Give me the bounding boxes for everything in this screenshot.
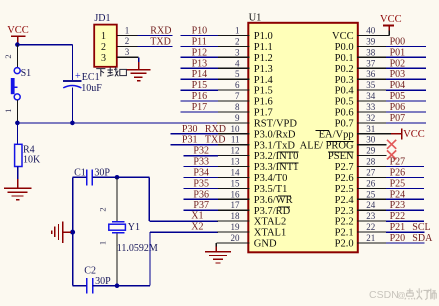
svg-text:P2.6: P2.6 bbox=[335, 173, 354, 184]
U1 pin 21 (P2.0) bbox=[335, 233, 387, 250]
overline RD (pin 17 name) bbox=[278, 206, 290, 208]
connector JD1 pin 1 bbox=[117, 25, 138, 35]
capacitor C1 designator bbox=[74, 167, 86, 178]
wire P06 net bbox=[386, 111, 426, 113]
svg-text:1: 1 bbox=[101, 31, 106, 42]
svg-text:30: 30 bbox=[366, 135, 376, 145]
svg-text:VCC: VCC bbox=[7, 25, 29, 36]
svg-text:26: 26 bbox=[366, 178, 376, 188]
wire branch down to EC1 bbox=[71, 45, 73, 81]
wire P10 net bbox=[181, 35, 218, 37]
wire X1 net to U1 pin 18 bbox=[149, 220, 218, 222]
U1 pin 28 (P2.7) bbox=[335, 157, 387, 174]
power ground at crystal rail bbox=[52, 221, 71, 243]
net label P07 bbox=[390, 113, 406, 124]
svg-text:X2: X2 bbox=[191, 222, 203, 233]
net label P23 bbox=[390, 200, 406, 211]
svg-text:23: 23 bbox=[366, 211, 376, 221]
svg-text:11: 11 bbox=[231, 135, 240, 145]
net label P10 bbox=[192, 26, 208, 37]
wire P26 net bbox=[386, 177, 424, 179]
svg-text:P01: P01 bbox=[390, 47, 406, 58]
svg-text:P2.7: P2.7 bbox=[335, 162, 354, 173]
svg-text:2: 2 bbox=[98, 207, 108, 211]
svg-text:P30: P30 bbox=[182, 124, 198, 135]
svg-text:RST/VPD: RST/VPD bbox=[254, 119, 298, 130]
U1 pin 4 (P1.3) bbox=[217, 58, 273, 75]
U1 pin 25 (P2.4) bbox=[335, 189, 387, 206]
U1 pin 3 (P1.2) bbox=[217, 47, 273, 64]
svg-text:P22: P22 bbox=[390, 211, 406, 222]
net label P34 bbox=[193, 168, 209, 179]
svg-text:P35: P35 bbox=[193, 178, 209, 189]
svg-text:P3.4/T0: P3.4/T0 bbox=[254, 173, 288, 184]
svg-text:SCL: SCL bbox=[412, 222, 430, 233]
net label P30 RXD bbox=[182, 124, 226, 135]
crystal Y1 bbox=[109, 222, 126, 233]
switch S1 pin 1 label bbox=[3, 109, 13, 113]
net label P12 bbox=[192, 47, 208, 58]
U1 pin 32 (P0.7) bbox=[335, 113, 387, 130]
wire P01 net bbox=[386, 56, 426, 58]
U1 pin 7 (P1.6) bbox=[217, 91, 273, 108]
svg-text:2: 2 bbox=[3, 54, 13, 58]
svg-text:Y1: Y1 bbox=[128, 222, 140, 233]
crystal Y1 value 11.0592M bbox=[117, 243, 158, 254]
net label P22 bbox=[390, 211, 406, 222]
svg-text:P25: P25 bbox=[390, 178, 406, 189]
svg-text:29: 29 bbox=[366, 146, 376, 156]
svg-text:19: 19 bbox=[231, 222, 241, 232]
wire P04 net bbox=[386, 89, 426, 91]
wire P33 net bbox=[183, 166, 217, 168]
svg-text:P0.4: P0.4 bbox=[335, 86, 355, 97]
net label P26 bbox=[390, 168, 406, 179]
wire P21-SCL net bbox=[386, 231, 425, 233]
overline WR (pin 16 name) bbox=[278, 195, 291, 197]
svg-text:PSEN: PSEN bbox=[328, 151, 354, 162]
wire RST net (node to U1 pin 9) bbox=[17, 122, 217, 124]
svg-text:16: 16 bbox=[231, 189, 241, 199]
svg-text:P2.1: P2.1 bbox=[335, 228, 354, 239]
U1 pin 15 (P3.5/T1) bbox=[217, 178, 287, 195]
connector JD1 designator bbox=[94, 13, 110, 24]
svg-text:33: 33 bbox=[366, 102, 376, 112]
no-connect X on pin 29 bbox=[387, 150, 396, 159]
svg-text:6: 6 bbox=[235, 80, 240, 90]
svg-text:P31: P31 bbox=[182, 135, 198, 146]
crystal Y1 pin 2 label bbox=[98, 207, 108, 211]
svg-text:@: @ bbox=[397, 290, 406, 300]
power symbol VCC (left) bbox=[7, 25, 29, 44]
U1 pin 17 (P3.7/RD) bbox=[217, 200, 290, 217]
wire P11 net bbox=[181, 45, 218, 47]
wire P13 net bbox=[181, 67, 218, 69]
svg-text:XTAL1: XTAL1 bbox=[254, 228, 286, 239]
IC U1 body bbox=[248, 23, 357, 253]
svg-text:P23: P23 bbox=[390, 200, 406, 211]
resistor R4 designator bbox=[23, 145, 35, 156]
U1 pin 12 (P3.2/INT0) bbox=[217, 146, 298, 163]
U1 pin 35 (P0.4) bbox=[335, 80, 387, 97]
wire Y1 down to node B bbox=[116, 234, 118, 286]
wire P16 net bbox=[181, 100, 218, 102]
net label P01 bbox=[390, 47, 406, 58]
net label P04 bbox=[390, 80, 406, 91]
ground below JD1 bbox=[127, 70, 151, 81]
resistor R4 value 10K bbox=[23, 155, 41, 166]
svg-text:1: 1 bbox=[125, 25, 130, 35]
capacitor C2 value 30P bbox=[95, 276, 111, 287]
U1 pin 14 (P3.4/T0) bbox=[217, 168, 287, 185]
svg-text:4: 4 bbox=[235, 58, 240, 68]
svg-text:3: 3 bbox=[235, 47, 240, 57]
svg-text:C2: C2 bbox=[84, 266, 96, 277]
wire P27 net bbox=[386, 166, 424, 168]
svg-text:10: 10 bbox=[231, 124, 241, 134]
overline PROG (pin 30 name) bbox=[327, 140, 354, 142]
U1 pin 10 (P3.0/RxD) bbox=[217, 124, 296, 141]
U1 pin 18 (XTAL2) bbox=[217, 211, 286, 228]
switch S1 bbox=[11, 68, 31, 100]
wire P14 net bbox=[181, 78, 218, 80]
op-amp U1 designator bbox=[249, 13, 262, 24]
wire P12 net bbox=[181, 56, 218, 58]
svg-text:TXD: TXD bbox=[205, 135, 226, 146]
svg-text:24: 24 bbox=[366, 200, 376, 210]
svg-text:38: 38 bbox=[366, 47, 376, 57]
node B junction (C2/Y1/X2) bbox=[115, 283, 120, 288]
svg-text:P00: P00 bbox=[390, 36, 406, 47]
net label RXD bbox=[150, 26, 171, 37]
svg-text:8: 8 bbox=[235, 102, 240, 112]
net label P13 bbox=[192, 58, 208, 69]
svg-text:P1.2: P1.2 bbox=[254, 53, 273, 64]
connector JD1 bbox=[94, 25, 117, 67]
wire P02 net bbox=[386, 67, 426, 69]
U1 pin 13 (P3.3/INT1) bbox=[217, 157, 298, 174]
wire P20-SDA net bbox=[386, 242, 425, 244]
wire P15 net bbox=[181, 89, 218, 91]
svg-text:P1.4: P1.4 bbox=[254, 75, 274, 86]
capacitor C1 value 30P bbox=[94, 167, 110, 178]
svg-text:P1.5: P1.5 bbox=[254, 86, 273, 97]
svg-text:P0.1: P0.1 bbox=[335, 53, 354, 64]
U1 pin 34 (P0.5) bbox=[335, 91, 387, 108]
svg-text:VCC: VCC bbox=[403, 129, 425, 140]
wire U1 pin 31 to VCC bbox=[391, 133, 402, 135]
connector JD1 pin 3 bbox=[117, 47, 139, 57]
net label P02 bbox=[390, 58, 406, 69]
svg-text:37: 37 bbox=[366, 58, 376, 68]
power symbol VCC (pin 31) bbox=[402, 128, 425, 140]
svg-text:EC1: EC1 bbox=[82, 72, 100, 83]
net label P03 bbox=[390, 69, 406, 80]
svg-text:P0.7: P0.7 bbox=[335, 119, 354, 130]
net label P25 bbox=[390, 178, 406, 189]
capacitor C2 bbox=[87, 278, 93, 294]
svg-text:TXD: TXD bbox=[150, 37, 171, 48]
node RST junction left bbox=[15, 121, 20, 126]
wire P30-RXD net bbox=[171, 133, 218, 135]
svg-text:P0.3: P0.3 bbox=[335, 75, 354, 86]
U1 pin 11 (P3.1/TxD) bbox=[217, 135, 295, 152]
wire P07 net bbox=[386, 122, 426, 124]
wire EC1 to RST net bbox=[71, 88, 73, 123]
U1 pin 27 (P2.6) bbox=[335, 168, 387, 185]
svg-text:P05: P05 bbox=[390, 91, 406, 102]
svg-text:P3.5/T1: P3.5/T1 bbox=[254, 184, 288, 195]
svg-text:S1: S1 bbox=[21, 68, 32, 79]
wire X2 net to U1 pin 19 bbox=[150, 231, 218, 233]
svg-text:P2.0: P2.0 bbox=[335, 239, 354, 250]
svg-text:P0.5: P0.5 bbox=[335, 97, 354, 108]
svg-text:P3.1/TxD: P3.1/TxD bbox=[254, 140, 296, 151]
wire X1 corner down bbox=[148, 177, 150, 221]
svg-text:1: 1 bbox=[98, 241, 108, 245]
wire C2 to node B bbox=[93, 285, 117, 287]
wire RXD net bbox=[138, 35, 173, 37]
net label P37 bbox=[193, 200, 209, 211]
net label P20 SDA bbox=[390, 233, 433, 244]
net label P00 bbox=[390, 36, 406, 47]
svg-text:P14: P14 bbox=[192, 69, 208, 80]
svg-text:32: 32 bbox=[366, 113, 375, 123]
svg-text:35: 35 bbox=[366, 80, 376, 90]
U1 pin 31 (EA/Vpp) bbox=[319, 124, 392, 141]
svg-text:P1.1: P1.1 bbox=[254, 42, 273, 53]
svg-text:12: 12 bbox=[231, 146, 240, 156]
svg-text:P24: P24 bbox=[390, 189, 406, 200]
svg-text:17: 17 bbox=[231, 200, 241, 210]
wire P17 net bbox=[181, 111, 218, 113]
U1 pin 36 (P0.3) bbox=[335, 69, 387, 86]
svg-text:28: 28 bbox=[366, 157, 376, 167]
net label P36 bbox=[193, 189, 209, 200]
svg-text:P3.6/WR: P3.6/WR bbox=[254, 195, 293, 206]
ground below R4 bbox=[4, 188, 31, 199]
svg-text:P27: P27 bbox=[390, 157, 406, 168]
wire P24 net bbox=[386, 198, 424, 200]
net label P21 SCL bbox=[390, 222, 431, 233]
svg-text:2: 2 bbox=[235, 36, 240, 46]
wire X2 corner up bbox=[149, 232, 151, 286]
U1 pin 33 (P0.6) bbox=[335, 102, 387, 119]
node RST junction at EC1 bbox=[70, 121, 75, 126]
svg-text:31: 31 bbox=[366, 124, 375, 134]
svg-text:P16: P16 bbox=[192, 91, 208, 102]
net label P24 bbox=[390, 189, 406, 200]
net label P35 bbox=[193, 178, 209, 189]
U1 pin 37 (P0.2) bbox=[335, 58, 387, 75]
wire TXD net bbox=[138, 45, 173, 47]
svg-text:VCC: VCC bbox=[332, 31, 354, 42]
wire P03 net bbox=[386, 78, 426, 80]
crystal Y1 designator bbox=[128, 222, 140, 233]
svg-text:P10: P10 bbox=[192, 26, 208, 37]
wire VCC junction to EC1 branch bbox=[17, 44, 72, 46]
U1 pin 29 (PSEN) bbox=[328, 146, 386, 163]
net label P06 bbox=[390, 102, 406, 113]
node A junction (C1/Y1/X1) bbox=[115, 175, 120, 180]
wire node A down to Y1 bbox=[116, 177, 118, 221]
U1 pin 23 (P2.2) bbox=[335, 211, 387, 228]
net label P15 bbox=[192, 80, 208, 91]
svg-text:34: 34 bbox=[366, 91, 376, 101]
wire U1 pin 40 riser bbox=[388, 30, 390, 36]
svg-text:1: 1 bbox=[3, 109, 13, 113]
svg-text:15: 15 bbox=[231, 178, 241, 188]
wire P00 net bbox=[386, 45, 426, 47]
wire U1 pin 20 to ground bbox=[216, 243, 228, 248]
wire P34 net bbox=[183, 177, 217, 179]
overline EA (pin 31 name) bbox=[316, 129, 330, 131]
svg-text:XTAL2: XTAL2 bbox=[254, 217, 286, 228]
svg-text:P15: P15 bbox=[192, 80, 208, 91]
svg-text:P37: P37 bbox=[193, 200, 209, 211]
U1 pin 2 (P1.1) bbox=[217, 36, 273, 53]
svg-text:P02: P02 bbox=[390, 58, 406, 69]
svg-text:27: 27 bbox=[366, 168, 376, 178]
U1 pin 5 (P1.4) bbox=[217, 69, 273, 86]
svg-text:5: 5 bbox=[235, 69, 240, 79]
svg-text:CSDN: CSDN bbox=[369, 289, 399, 301]
svg-text:39: 39 bbox=[366, 36, 376, 46]
capacitor C1 bbox=[87, 170, 93, 186]
crystal Y1 pin 1 label bbox=[98, 241, 108, 245]
node VCC-left junction bbox=[15, 42, 20, 47]
svg-text:22: 22 bbox=[366, 222, 375, 232]
ground below U1 bbox=[205, 247, 231, 264]
svg-text:RXD: RXD bbox=[150, 26, 171, 37]
svg-text:P34: P34 bbox=[193, 168, 209, 179]
svg-text:P1.0: P1.0 bbox=[254, 31, 273, 42]
U1 pin 38 (P0.1) bbox=[335, 47, 387, 64]
svg-text:P3.3/INT1: P3.3/INT1 bbox=[254, 162, 299, 173]
svg-text:P17: P17 bbox=[192, 102, 208, 113]
svg-text:P13: P13 bbox=[192, 58, 208, 69]
net label P11 bbox=[192, 36, 207, 47]
svg-text:13: 13 bbox=[231, 157, 241, 167]
U1 pin 6 (P1.5) bbox=[217, 80, 273, 97]
wire C1 to node A bbox=[92, 176, 117, 178]
svg-text:P2.5: P2.5 bbox=[335, 184, 354, 195]
svg-text:36: 36 bbox=[366, 69, 376, 79]
svg-text:P33: P33 bbox=[193, 157, 209, 168]
overline PSEN (pin 29 name) bbox=[328, 151, 354, 153]
svg-text:20: 20 bbox=[231, 233, 241, 243]
svg-text:P03: P03 bbox=[390, 69, 406, 80]
net label P32 bbox=[193, 146, 209, 157]
wire P35 net bbox=[183, 187, 217, 189]
svg-text:14: 14 bbox=[231, 168, 241, 178]
wire S1 to RST node bbox=[16, 100, 18, 123]
svg-text:P0.0: P0.0 bbox=[335, 42, 354, 53]
wire crystal left rail bbox=[72, 177, 74, 285]
capacitor EC1 value 10uF bbox=[81, 83, 102, 94]
net label X2 bbox=[191, 222, 203, 233]
svg-text:X1: X1 bbox=[191, 211, 203, 222]
wire R4 to ground bbox=[17, 167, 19, 189]
net label P31 TXD bbox=[182, 135, 226, 146]
U1 pin 24 (P2.3) bbox=[335, 200, 387, 217]
svg-text:P20: P20 bbox=[390, 233, 406, 244]
svg-text:P1.7: P1.7 bbox=[254, 108, 273, 119]
overline INT0 (pin 12 name) bbox=[277, 151, 298, 153]
svg-text:P3.2/INT0: P3.2/INT0 bbox=[254, 151, 299, 162]
svg-text:P2.3: P2.3 bbox=[335, 206, 354, 217]
svg-text:40: 40 bbox=[366, 26, 376, 36]
svg-text:P11: P11 bbox=[192, 36, 207, 47]
svg-text:P12: P12 bbox=[192, 47, 208, 58]
svg-text:7: 7 bbox=[235, 91, 240, 101]
svg-text:P2.4: P2.4 bbox=[335, 195, 355, 206]
U1 pin 30 (ALE/ PROG) bbox=[300, 135, 387, 152]
wire P22 net bbox=[386, 220, 424, 222]
capacitor EC1 plus sign bbox=[75, 71, 81, 82]
svg-text:3: 3 bbox=[125, 47, 130, 57]
svg-text:RXD: RXD bbox=[205, 124, 226, 135]
svg-text:JD1: JD1 bbox=[94, 13, 110, 24]
U1 pin 22 (P2.1) bbox=[335, 222, 387, 239]
U1 pin 8 (P1.7) bbox=[217, 102, 273, 119]
svg-text:P07: P07 bbox=[390, 113, 406, 124]
U1 pin 26 (P2.5) bbox=[335, 178, 387, 195]
svg-text:25: 25 bbox=[366, 189, 376, 199]
wire P31-TXD net bbox=[171, 144, 218, 146]
svg-text:VCC: VCC bbox=[380, 14, 402, 25]
svg-text:P0.6: P0.6 bbox=[335, 108, 354, 119]
svg-text:2: 2 bbox=[125, 36, 130, 46]
svg-text:P3.0/RxD: P3.0/RxD bbox=[254, 129, 296, 140]
wire P25 net bbox=[386, 187, 424, 189]
net label X1 bbox=[191, 211, 203, 222]
switch S1 pin 2 label bbox=[3, 54, 13, 58]
U1 pin 1 (P1.0) bbox=[217, 26, 273, 43]
no-connect X on pin 30 bbox=[387, 140, 396, 149]
wire P05 net bbox=[386, 100, 426, 102]
capacitor C2 designator bbox=[84, 266, 96, 277]
svg-text:SDA: SDA bbox=[412, 233, 433, 244]
svg-text:21: 21 bbox=[366, 233, 375, 243]
wire RST node to R4 bbox=[16, 123, 18, 144]
resistor R4 bbox=[15, 144, 22, 166]
svg-text:P21: P21 bbox=[390, 222, 406, 233]
svg-text:9: 9 bbox=[235, 113, 240, 123]
U1 pin 39 (P0.0) bbox=[335, 36, 387, 53]
wire JD1 pin 3 to ground bbox=[138, 57, 140, 69]
svg-text:EA/Vpp: EA/Vpp bbox=[319, 129, 354, 140]
net label P16 bbox=[192, 91, 208, 102]
net label P17 bbox=[192, 102, 208, 113]
capacitor EC1 bbox=[63, 81, 81, 88]
svg-text:GND: GND bbox=[254, 239, 277, 250]
wire left rail to C2 bbox=[73, 285, 87, 287]
U1 pin 40 (VCC) bbox=[332, 26, 389, 43]
svg-text:P3.7/RD: P3.7/RD bbox=[254, 206, 291, 217]
U1 pin 19 (XTAL1) bbox=[217, 222, 286, 239]
svg-text:3: 3 bbox=[101, 53, 106, 64]
svg-text:P36: P36 bbox=[193, 189, 209, 200]
capacitor EC1 designator bbox=[82, 72, 100, 83]
net label TXD bbox=[150, 37, 171, 48]
wire P23 net bbox=[386, 209, 424, 211]
wire left rail to C1 bbox=[73, 176, 87, 178]
wire P32 net bbox=[183, 155, 217, 157]
wire node B to X2 corner bbox=[117, 285, 150, 287]
svg-text:10uF: 10uF bbox=[81, 83, 102, 94]
svg-text:ALE/ PROG: ALE/ PROG bbox=[300, 140, 354, 151]
